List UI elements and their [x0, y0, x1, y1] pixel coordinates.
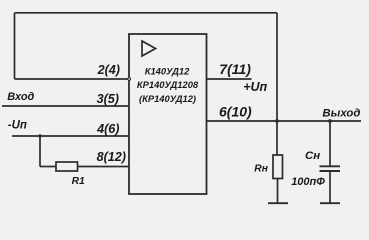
svg-text:Сн: Сн	[305, 150, 320, 162]
svg-text:КР140УД1208: КР140УД1208	[137, 79, 199, 90]
svg-text:4(6): 4(6)	[96, 122, 119, 136]
feedback wire: top horizontal segment	[15, 12, 278, 14]
svg-text:R1: R1	[72, 176, 85, 187]
resistor R1	[56, 162, 78, 171]
wire from junction to resistor R1	[40, 166, 56, 168]
wire from Сн to ground	[329, 171, 331, 203]
pin 7(11) supply stub wire	[207, 78, 252, 80]
wire from Rн to ground	[277, 179, 279, 204]
resistor Rн	[273, 155, 283, 179]
op-amp U1 body (К140УД12)	[129, 34, 207, 194]
wire from output node down to Rн	[276, 121, 278, 155]
svg-text:Rн: Rн	[254, 163, 268, 174]
svg-text:-Uп: -Uп	[8, 120, 27, 132]
junction node output/Сн	[328, 119, 332, 123]
op-amp triangle symbol	[142, 41, 156, 56]
svg-text:7(11): 7(11)	[219, 61, 251, 77]
junction node on -Uп wire	[38, 134, 42, 138]
-Uп rail wire to pin 4(6)	[12, 135, 129, 137]
output wire pin 6(10) to Выход	[207, 120, 362, 122]
svg-text:Вход: Вход	[7, 91, 34, 103]
svg-text:2(4): 2(4)	[97, 63, 120, 77]
ground bar (Rн branch)	[268, 202, 288, 204]
svg-text:(КР140УД12): (КР140УД12)	[139, 93, 196, 104]
feedback wire: right vertical segment down to output node	[276, 13, 278, 121]
wire from output node down to Сн	[329, 121, 331, 166]
input wire Вход to pin 3(5)	[2, 105, 129, 107]
feedback wire: left vertical segment	[14, 13, 16, 79]
svg-text:3(5): 3(5)	[97, 92, 119, 106]
ground bar (Сн branch)	[320, 202, 340, 204]
svg-text:К140УД12: К140УД12	[145, 66, 190, 77]
svg-text:Выход: Выход	[322, 108, 360, 120]
pin 8(12) wire from R1 to op-amp	[78, 166, 130, 168]
capacitor Сн top plate	[320, 165, 341, 167]
svg-text:6(10): 6(10)	[219, 104, 252, 120]
inverting input circle at pin 2(4)	[128, 78, 131, 81]
svg-text:8(12): 8(12)	[97, 150, 126, 164]
junction node output/feedback/Rн	[275, 119, 279, 123]
svg-text:100пФ: 100пФ	[291, 176, 325, 188]
wire from -Uп junction down to R1	[39, 136, 41, 167]
svg-text:+Uп: +Uп	[243, 80, 267, 94]
capacitor Сн bottom plate	[320, 170, 341, 172]
pin 2(4) wire (inverting input)	[15, 78, 128, 80]
